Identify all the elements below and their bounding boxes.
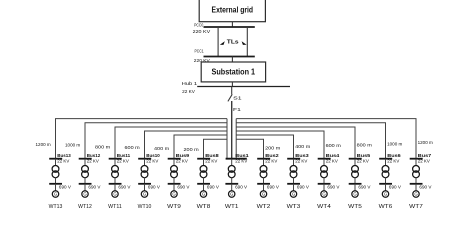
LV busbar 690 V (WT10) bbox=[138, 184, 160, 190]
wire LV busbar to generator (WT3) bbox=[293, 184, 295, 191]
wire Bus1 to transformer bbox=[231, 159, 233, 166]
svg-text:WT6: WT6 bbox=[379, 204, 393, 210]
svg-text:690 V: 690 V bbox=[88, 184, 100, 189]
node PCC0 busbar 220 KV bbox=[193, 23, 255, 34]
wire transformer to LV busbar (WT10) bbox=[144, 177, 146, 184]
wire transformer to LV busbar (WT3) bbox=[293, 177, 295, 184]
svg-text:400 m: 400 m bbox=[154, 146, 169, 151]
svg-text:690 V: 690 V bbox=[358, 184, 370, 189]
svg-text:690 V: 690 V bbox=[235, 184, 247, 189]
svg-text:690 V: 690 V bbox=[297, 184, 309, 189]
svg-text:Bus13: Bus13 bbox=[57, 153, 71, 158]
feeder cable to WT2 (200 m) bbox=[236, 139, 263, 159]
busbar Bus12 22 KV bbox=[79, 153, 101, 164]
transformer T (WT5) bbox=[352, 166, 359, 178]
svg-text:F1: F1 bbox=[233, 107, 241, 113]
svg-text:800 m: 800 m bbox=[95, 145, 110, 150]
svg-text:WT8: WT8 bbox=[197, 204, 211, 210]
feeder cable to WT8 (200 m) bbox=[204, 139, 228, 159]
transmission line TL2 bbox=[246, 27, 248, 57]
svg-text:Bus7: Bus7 bbox=[418, 153, 432, 158]
busbar Bus8 22 KV bbox=[197, 153, 219, 164]
transformer T (WT2) bbox=[260, 166, 267, 178]
LV busbar 690 V (WT2) bbox=[257, 184, 279, 190]
svg-text:Bus1: Bus1 bbox=[235, 153, 249, 158]
generator G (WT11) bbox=[112, 191, 118, 197]
LV busbar 690 V (WT5) bbox=[349, 184, 371, 190]
wire LV busbar to generator (WT5) bbox=[354, 184, 356, 191]
feeder cable to WT12 (1000 m) bbox=[85, 123, 227, 159]
svg-text:WT2: WT2 bbox=[257, 204, 271, 210]
svg-text:690 V: 690 V bbox=[389, 184, 401, 189]
transformer T (WT6) bbox=[382, 166, 389, 178]
wire transformer to LV busbar (WT4) bbox=[323, 177, 325, 184]
switch S1 bbox=[228, 87, 242, 102]
wire Bus10 to transformer bbox=[144, 159, 146, 166]
wire Bus5 to transformer bbox=[354, 159, 356, 166]
wire Bus4 to transformer bbox=[323, 159, 325, 166]
generator G (WT12) bbox=[82, 191, 88, 197]
svg-text:690 V: 690 V bbox=[327, 184, 339, 189]
wire Bus8 to transformer bbox=[203, 159, 205, 166]
svg-text:TLs: TLs bbox=[227, 39, 239, 45]
svg-text:690 V: 690 V bbox=[207, 184, 219, 189]
busbar Bus1 22 KV bbox=[226, 153, 250, 164]
svg-text:WT9: WT9 bbox=[167, 204, 181, 210]
generator G (WT7) bbox=[413, 191, 419, 197]
svg-text:WT1: WT1 bbox=[225, 204, 239, 210]
svg-text:1200 m: 1200 m bbox=[36, 142, 51, 147]
svg-text:220 KV: 220 KV bbox=[193, 29, 212, 34]
wire LV busbar to generator (WT1) bbox=[231, 184, 233, 191]
feeder cable to WT11 (800 m) bbox=[115, 127, 227, 159]
generator G (WT3) bbox=[290, 191, 296, 197]
busbar Bus10 22 KV bbox=[138, 153, 160, 164]
busbar Bus7 22 KV bbox=[410, 153, 432, 164]
busbar Bus3 22 KV bbox=[287, 153, 309, 164]
wire Bus11 to transformer bbox=[114, 159, 116, 166]
svg-text:22 KV: 22 KV bbox=[117, 159, 129, 164]
wire transformer to LV busbar (WT9) bbox=[173, 177, 175, 184]
LV busbar 690 V (WT9) bbox=[168, 184, 190, 190]
wire Bus13 to transformer bbox=[55, 159, 57, 166]
feeder cable to WT13 (1200 m) bbox=[56, 119, 228, 159]
generator G (WT10) bbox=[141, 191, 147, 197]
svg-text:Substation 1: Substation 1 bbox=[212, 67, 256, 76]
wire LV busbar to generator (WT8) bbox=[203, 184, 205, 191]
svg-text:1000 m: 1000 m bbox=[387, 142, 402, 147]
generator G (WT13) bbox=[52, 191, 58, 197]
svg-text:690 V: 690 V bbox=[118, 184, 130, 189]
wire LV busbar to generator (WT12) bbox=[84, 184, 86, 191]
substation 1 box bbox=[201, 62, 265, 82]
generator G (WT1) bbox=[229, 191, 235, 197]
svg-text:690 V: 690 V bbox=[148, 184, 160, 189]
svg-text:690 V: 690 V bbox=[419, 184, 431, 189]
svg-text:600 m: 600 m bbox=[326, 143, 341, 148]
svg-text:WT5: WT5 bbox=[348, 204, 362, 210]
left feeder trunk vertical bbox=[226, 119, 228, 159]
generator G (WT9) bbox=[171, 191, 177, 197]
svg-text:22 KV: 22 KV bbox=[295, 159, 307, 164]
svg-text:Bus9: Bus9 bbox=[176, 153, 190, 158]
external grid box bbox=[199, 0, 265, 22]
LV busbar 690 V (WT4) bbox=[318, 184, 340, 190]
wire Bus12 to transformer bbox=[84, 159, 86, 166]
wire Bus7 to transformer bbox=[415, 159, 417, 166]
svg-text:22 KV: 22 KV bbox=[176, 159, 188, 164]
svg-text:22 KV: 22 KV bbox=[57, 159, 69, 164]
transformer T (WT12) bbox=[82, 166, 89, 178]
busbar Bus6 22 KV bbox=[379, 153, 401, 164]
svg-text:22 KV: 22 KV bbox=[357, 159, 369, 164]
busbar Bus4 22 KV bbox=[318, 153, 340, 164]
wire Bus6 to transformer bbox=[385, 159, 387, 166]
right feeder trunk vertical bbox=[235, 119, 237, 159]
wire transformer to LV busbar (WT5) bbox=[354, 177, 356, 184]
svg-text:22 KV: 22 KV bbox=[387, 159, 399, 164]
busbar Bus2 22 KV bbox=[257, 153, 279, 164]
svg-text:WT4: WT4 bbox=[317, 204, 331, 210]
transformer T (WT10) bbox=[141, 166, 148, 178]
wire transformer to LV busbar (WT7) bbox=[415, 177, 417, 184]
feeder cable to WT4 (600 m) bbox=[236, 131, 324, 159]
svg-text:Bus5: Bus5 bbox=[357, 153, 371, 158]
svg-text:WT12: WT12 bbox=[78, 204, 92, 210]
wire LV busbar to generator (WT4) bbox=[323, 184, 325, 191]
transformer T (WT8) bbox=[200, 166, 207, 178]
label TLs with arrowheads bbox=[220, 39, 247, 45]
wire transformer to LV busbar (WT8) bbox=[203, 177, 205, 184]
transformer T (WT1) bbox=[228, 166, 235, 178]
svg-text:S1: S1 bbox=[233, 96, 242, 102]
wire transformer to LV busbar (WT12) bbox=[84, 177, 86, 184]
svg-text:WT13: WT13 bbox=[49, 204, 63, 210]
feeder cable to WT7 (1200 m) bbox=[236, 119, 416, 159]
svg-text:WT7: WT7 bbox=[409, 204, 423, 210]
svg-text:Hub 1: Hub 1 bbox=[182, 81, 198, 86]
svg-text:PCC0: PCC0 bbox=[194, 23, 204, 28]
svg-text:WT11: WT11 bbox=[108, 204, 122, 210]
svg-text:Bus8: Bus8 bbox=[205, 153, 219, 158]
svg-text:Bus3: Bus3 bbox=[295, 153, 309, 158]
wire grid to PCC0 bbox=[231, 22, 233, 27]
svg-text:22 KV: 22 KV bbox=[205, 159, 217, 164]
LV busbar 690 V (WT6) bbox=[379, 184, 401, 190]
feeder cable to WT6 (1000 m) bbox=[236, 123, 385, 159]
wire Bus9 to transformer bbox=[173, 159, 175, 166]
wire LV busbar to generator (WT11) bbox=[114, 184, 116, 191]
transformer T (WT9) bbox=[171, 166, 178, 178]
LV busbar 690 V (WT3) bbox=[287, 184, 309, 190]
svg-text:800 m: 800 m bbox=[357, 143, 372, 148]
transformer T (WT13) bbox=[52, 166, 59, 178]
svg-text:22 KV: 22 KV bbox=[182, 89, 196, 94]
node PCC1 busbar 220 KV bbox=[194, 49, 255, 63]
wire transformer to LV busbar (WT6) bbox=[385, 177, 387, 184]
svg-text:22 KV: 22 KV bbox=[326, 159, 338, 164]
generator G (WT8) bbox=[200, 191, 206, 197]
generator G (WT5) bbox=[352, 191, 358, 197]
wire transformer to LV busbar (WT1) bbox=[231, 177, 233, 184]
svg-text:22 KV: 22 KV bbox=[87, 159, 99, 164]
LV busbar 690 V (WT12) bbox=[79, 184, 101, 190]
wire transformer to LV busbar (WT11) bbox=[114, 177, 116, 184]
feeder cable to WT5 (800 m) bbox=[236, 127, 355, 159]
LV busbar 690 V (WT7) bbox=[410, 184, 432, 190]
wire LV busbar to generator (WT7) bbox=[415, 184, 417, 191]
wire LV busbar to generator (WT10) bbox=[144, 184, 146, 191]
wire LV busbar to generator (WT2) bbox=[263, 184, 265, 191]
busbar Bus5 22 KV bbox=[349, 153, 371, 164]
svg-text:200 m: 200 m bbox=[184, 147, 199, 152]
svg-text:PCC1: PCC1 bbox=[195, 49, 205, 54]
svg-text:22 KV: 22 KV bbox=[235, 159, 247, 164]
svg-text:22 KV: 22 KV bbox=[265, 159, 277, 164]
transformer T (WT4) bbox=[321, 166, 328, 178]
wire substation to hub bbox=[231, 82, 233, 87]
wire LV busbar to generator (WT9) bbox=[173, 184, 175, 191]
generator G (WT4) bbox=[321, 191, 327, 197]
generator G (WT2) bbox=[260, 191, 266, 197]
node Hub 1 busbar 22 KV bbox=[182, 81, 290, 94]
svg-text:WT3: WT3 bbox=[287, 204, 301, 210]
svg-text:690 V: 690 V bbox=[59, 184, 71, 189]
wire Bus3 to transformer bbox=[293, 159, 295, 166]
svg-text:Bus11: Bus11 bbox=[117, 153, 131, 158]
svg-text:1000 m: 1000 m bbox=[65, 142, 80, 147]
svg-text:Bus12: Bus12 bbox=[87, 153, 101, 158]
svg-text:690 V: 690 V bbox=[267, 184, 279, 189]
svg-text:400 m: 400 m bbox=[295, 144, 310, 149]
transformer T (WT7) bbox=[413, 166, 420, 178]
svg-text:WT10: WT10 bbox=[138, 204, 152, 210]
wire LV busbar to generator (WT6) bbox=[385, 184, 387, 191]
LV busbar 690 V (WT1) bbox=[225, 184, 247, 190]
generator G (WT6) bbox=[382, 191, 388, 197]
svg-text:Bus4: Bus4 bbox=[326, 153, 340, 158]
svg-text:600 m: 600 m bbox=[125, 145, 140, 150]
svg-text:Bus2: Bus2 bbox=[265, 153, 279, 158]
svg-text:External grid: External grid bbox=[212, 6, 254, 15]
svg-text:Bus10: Bus10 bbox=[146, 153, 160, 158]
wire LV busbar to generator (WT13) bbox=[55, 184, 57, 191]
LV busbar 690 V (WT13) bbox=[49, 184, 71, 190]
LV busbar 690 V (WT11) bbox=[109, 184, 131, 190]
svg-text:22 KV: 22 KV bbox=[146, 159, 158, 164]
wire PCC1 to substation bbox=[231, 57, 233, 63]
feeder stem F1 bbox=[232, 101, 242, 159]
svg-text:690 V: 690 V bbox=[177, 184, 189, 189]
svg-text:Bus6: Bus6 bbox=[387, 153, 401, 158]
busbar Bus9 22 KV bbox=[168, 153, 190, 164]
busbar Bus13 22 KV bbox=[49, 153, 71, 164]
transformer T (WT3) bbox=[290, 166, 297, 178]
svg-text:22 KV: 22 KV bbox=[418, 159, 430, 164]
feeder cable to WT9 (400 m) bbox=[174, 135, 227, 159]
wire Bus2 to transformer bbox=[263, 159, 265, 166]
busbar Bus11 22 KV bbox=[109, 153, 131, 164]
feeder cable to WT10 (600 m) bbox=[145, 131, 228, 159]
wire transformer to LV busbar (WT2) bbox=[263, 177, 265, 184]
wire transformer to LV busbar (WT13) bbox=[55, 177, 57, 184]
svg-text:200 m: 200 m bbox=[265, 145, 280, 150]
transformer T (WT11) bbox=[112, 166, 119, 178]
LV busbar 690 V (WT8) bbox=[197, 184, 219, 190]
transmission line TL1 bbox=[217, 27, 219, 57]
feeder cable to WT3 (400 m) bbox=[236, 135, 293, 159]
svg-text:1200 m: 1200 m bbox=[418, 140, 433, 145]
